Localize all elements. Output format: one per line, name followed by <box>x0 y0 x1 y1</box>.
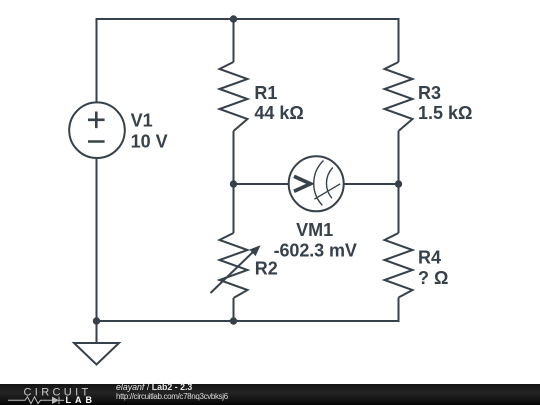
svg-text:-602.3 mV: -602.3 mV <box>274 241 357 261</box>
svg-text:elayanf / Lab2 - 2.3: elayanf / Lab2 - 2.3 <box>116 382 192 392</box>
node top middle <box>230 15 237 22</box>
wire middle R1-to-node <box>233 131 235 233</box>
label V1 name/value <box>131 111 168 152</box>
svg-text:R3: R3 <box>418 83 441 103</box>
wire node-to-voltmeter <box>234 183 289 185</box>
node bottom left (ground junction) <box>93 317 100 324</box>
svg-text:R4: R4 <box>418 248 441 268</box>
node bottom middle <box>230 317 237 324</box>
svg-text:10 V: 10 V <box>131 132 168 152</box>
wire bottom frame <box>97 159 399 322</box>
wire voltmeter-to-right <box>344 183 399 185</box>
label R1 name/value <box>254 83 303 123</box>
svg-text:LAB: LAB <box>66 395 97 405</box>
svg-text:? Ω: ? Ω <box>418 268 448 288</box>
node middle left of voltmeter <box>230 180 237 187</box>
label VM1 name/value <box>274 220 357 261</box>
svg-text:http://circuitlab.com/c78nq3cv: http://circuitlab.com/c78nq3cvbksj6 <box>116 392 229 401</box>
svg-text:V1: V1 <box>131 111 153 131</box>
voltage source V1 <box>69 102 125 158</box>
wire middle R2-to-bottom <box>233 298 235 321</box>
label R3 name/value <box>418 83 472 123</box>
resistor R3 <box>385 62 413 131</box>
resistor R1 <box>220 62 248 131</box>
logo CircuitLab <box>8 387 96 405</box>
svg-text:R1: R1 <box>254 83 277 103</box>
svg-text:R2: R2 <box>255 258 278 278</box>
arrowhead of R2 <box>249 245 260 256</box>
label R4 name/value <box>418 248 448 288</box>
wire right R3-to-R4 <box>398 131 400 233</box>
svg-text:44 kΩ: 44 kΩ <box>254 103 303 123</box>
wire middle top stub <box>233 19 235 62</box>
node right of voltmeter <box>395 180 402 187</box>
svg-text:1.5 kΩ: 1.5 kΩ <box>418 103 472 123</box>
svg-text:VM1: VM1 <box>296 220 333 240</box>
potentiometer R2 <box>211 233 254 298</box>
voltmeter VM1 <box>289 156 344 211</box>
footer bar <box>0 384 540 405</box>
wire top frame <box>97 19 399 102</box>
ground <box>74 321 119 365</box>
resistor R4 <box>385 233 413 298</box>
